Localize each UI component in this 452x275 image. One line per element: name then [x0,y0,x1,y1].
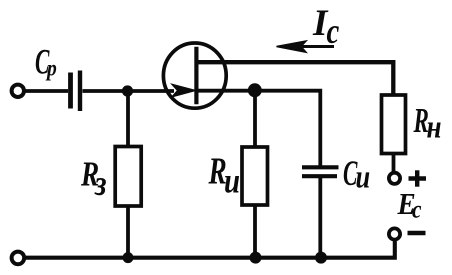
node source junction [248,83,262,97]
resistor R3 (Rn load) [382,95,406,154]
terminal minus [389,228,400,239]
node gate junction [122,85,133,96]
wire drain lead to top right corner [197,62,393,96]
input terminal (top left) [12,85,24,97]
label Rn [413,102,442,145]
label Cp [35,43,57,82]
minus sign [408,231,426,235]
capacitor C2 (Ci) top plate [302,165,339,169]
svg-text:р: р [45,55,57,81]
svg-text:с: с [327,12,340,52]
transistor V1 circle [163,43,226,108]
label Ec [397,187,422,224]
node bottom Ri [250,252,262,264]
transistor gate arrowhead [173,85,194,96]
capacitor C1 (Cp) right plate [78,71,82,112]
transistor channel bar [194,47,198,105]
output terminal (bottom left) [12,252,25,265]
wire Cp to gate [83,89,175,93]
svg-text:н: н [427,108,442,145]
node bottom Rz [123,252,134,263]
wire Ci to bottom [318,177,322,258]
label Ri [208,150,240,201]
wire junction down to Ri [253,91,257,148]
svg-text:з: з [94,164,107,203]
wire minus terminal to bottom wire [25,240,395,258]
svg-text:с: с [412,196,421,224]
node bottom Ci [315,252,327,264]
wire input to Cp [25,89,69,93]
wire Rn to plus terminal [392,154,396,173]
resistor R2 (Ri) [242,147,268,205]
svg-text:и: и [356,159,371,195]
capacitor C1 (Cp) left plate [68,73,73,109]
resistor R1 (Rz) [115,147,141,207]
wire source lead to Ci corner [197,91,320,166]
terminal plus [389,173,400,184]
wire Rz to bottom [126,206,130,258]
wire junction down to Rz [126,91,130,148]
svg-text:и: и [224,162,240,202]
label Ic [312,3,339,52]
plus sign [409,176,427,180]
wire Ri to bottom [253,205,257,258]
arrow Ic (current) [283,45,334,48]
label Ci [343,155,370,196]
capacitor C2 (Ci) bottom plate [302,174,337,178]
label Rz [80,154,107,203]
